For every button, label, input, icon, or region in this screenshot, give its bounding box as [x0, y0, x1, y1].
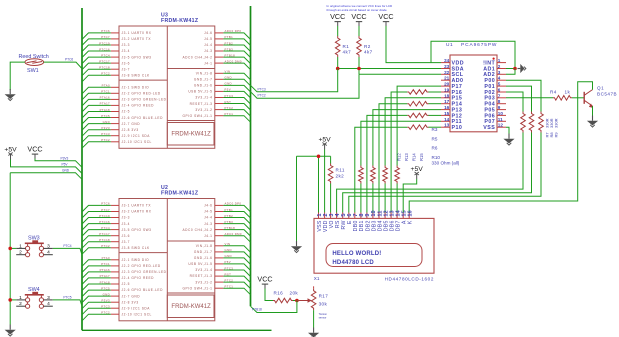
svg-text:11: 11 [377, 211, 383, 217]
wire net PTC5 to bus1 [82, 290, 111, 297]
svg-text:14: 14 [395, 209, 401, 216]
U1 right pin 2 AD1 [483, 64, 506, 72]
svg-text:J4-5: J4-5 [204, 37, 212, 41]
U3 left pin J3-7 [99, 66, 130, 72]
value label HD44780LCD-1602 [385, 277, 434, 282]
junction dot VSS-GND [317, 155, 321, 159]
LCD module X1 outline [314, 218, 434, 273]
wire net RST to bus2 [223, 104, 250, 111]
wire R17 bottom to ground [313, 310, 315, 327]
wire net PTC2 to bus2 [223, 282, 250, 289]
resistor R2 4k7 [357, 36, 373, 57]
svg-text:4: 4 [498, 76, 501, 81]
wire net P3V3 to bus1 [82, 130, 111, 137]
U1 right pin 5 P01 [484, 82, 506, 90]
svg-text:3V3,J1-4: 3V3,J1-4 [195, 268, 212, 272]
svg-text:Torsion: Torsion [319, 312, 328, 316]
wire net PTC5 SW4 to bus1 [53, 300, 82, 306]
svg-text:J2-7 GND: J2-7 GND [122, 294, 141, 298]
svg-text:R10: R10 [432, 155, 441, 160]
resistor R8 330R vertical [529, 112, 534, 133]
wire U1 P13 to LCD column [373, 110, 441, 166]
U2 left pin J2-8 3V3 [102, 299, 139, 305]
wire +5V to LCD pin15 A [403, 179, 417, 213]
svg-text:J3-4: J3-4 [122, 222, 130, 226]
ground under Q1 emitter [587, 116, 598, 128]
svg-text:J3-2 UART0 RX: J3-2 UART0 RX [122, 210, 152, 214]
module U2 inner box FRDM-KW41Z [167, 295, 214, 318]
svg-text:J2-8 3V3: J2-8 3V3 [122, 300, 139, 304]
svg-text:VIN,J1-8: VIN,J1-8 [196, 72, 213, 76]
U2 left pin J3-8 SWD CLK [101, 244, 150, 250]
svg-text:GPIO SW4,J1-1: GPIO SW4,J1-1 [183, 114, 213, 118]
wire net PTC2 to bus1 [82, 142, 111, 148]
U2 left pin J3-4 [99, 220, 130, 226]
net arrow marker right of AD1 [518, 64, 526, 73]
svg-text:VCC: VCC [351, 12, 366, 21]
net label PTB18 [252, 307, 262, 311]
U2 left pin J3-7 [99, 238, 130, 244]
wire net PTA18 to bus1 [82, 284, 111, 291]
resistor R3 330R horizontal on P16 [407, 90, 428, 95]
svg-text:RESET,J1-3: RESET,J1-3 [190, 274, 213, 278]
wire net PTA0 to bus1 [82, 87, 111, 94]
svg-text:2: 2 [19, 250, 22, 256]
svg-text:J2-2 GPIO RED-LED: J2-2 GPIO RED-LED [122, 264, 161, 268]
svg-text:R12: R12 [396, 153, 401, 161]
svg-text:RESET,J1-3: RESET,J1-3 [190, 102, 213, 106]
wire net PTC3 to bus1 [82, 136, 111, 143]
svg-text:GND,J1-7: GND,J1-7 [194, 78, 213, 82]
junction dot AD1 node [513, 67, 517, 71]
U2 right pin J4-1 [204, 232, 242, 238]
wire net VIN to bus2 [223, 246, 250, 253]
wire net PTC2 to bus1 [82, 75, 111, 82]
wire net PTC4 to bus1 [82, 57, 111, 64]
wire net P5V to bus2 [223, 91, 250, 98]
wire rail from GND corner down to SW3 SW4 [9, 173, 11, 325]
svg-text:R17: R17 [319, 294, 329, 299]
resistor R14 330R vertical in column [383, 166, 388, 184]
svg-text:HD44780 LCD: HD44780 LCD [332, 260, 374, 266]
svg-text:VSS: VSS [483, 125, 495, 131]
svg-text:3: 3 [47, 295, 50, 301]
svg-text:GND,J1-6: GND,J1-6 [194, 84, 213, 88]
U3 left pin J3-6 [99, 59, 130, 65]
ground under LCD [291, 241, 302, 253]
wire net P5V to bus2 [223, 264, 250, 271]
wire net GND to bus2 [223, 252, 250, 259]
designator U2 title [161, 185, 199, 197]
wire net PTC4 to bus1 [82, 230, 111, 237]
U3 right pin GPIO SW4,J1-1 [183, 112, 234, 118]
LCD inner display box [326, 244, 422, 267]
svg-text:VCC: VCC [27, 145, 42, 154]
svg-text:J2-3 GPIO GREEN-LED: J2-3 GPIO GREEN-LED [122, 270, 167, 274]
LCD pin 14 DB7 [395, 209, 401, 231]
svg-text:J4-1: J4-1 [204, 234, 212, 238]
U3 left pin J3-8 SWD CLK [101, 72, 150, 78]
svg-text:3V3,J1-4: 3V3,J1-4 [195, 96, 212, 100]
svg-text:SW3: SW3 [28, 236, 40, 242]
U1 left pin 23 SDA [441, 64, 464, 72]
wire net PTC16 to bus1 [82, 224, 111, 231]
svg-text:RS: RS [335, 220, 341, 228]
U2 left pin J3-1 UART0 TX [101, 202, 151, 208]
U3 right pin GND,J1-6 [194, 82, 232, 88]
U1 left pin 13 P10 [441, 123, 462, 131]
svg-text:J2-9 I2C1 SDA: J2-9 I2C1 SDA [122, 306, 151, 310]
svg-text:GND,J1-7: GND,J1-7 [194, 250, 213, 254]
ground under R17 [308, 328, 319, 337]
U2 left pin J2-10 I2C1 SCL [101, 311, 152, 317]
svg-text:USB 5V,J1-5: USB 5V,J1-5 [188, 90, 212, 94]
junction dot at rail SW4 [8, 298, 12, 302]
U3 right pin J4-3 [204, 47, 233, 53]
IC U1 PCA9675PW outline [450, 55, 497, 132]
resistor R7 330R vertical [521, 112, 526, 133]
U3 left pin J2-5 [100, 108, 130, 114]
svg-text:22: 22 [444, 70, 450, 75]
trimmer wiper arrow into R17 [297, 298, 312, 302]
LCD pin 12 DB5 [383, 210, 389, 231]
resistor R6 330R horizontal on P12 [407, 113, 428, 118]
U3 left pin J2-3 GPIO GREEN-LED [100, 96, 167, 102]
svg-text:J2-6 GPIO BLUE-LED: J2-6 GPIO BLUE-LED [122, 116, 164, 120]
wire net PTB18 to bus2 [223, 230, 250, 237]
svg-text:P5V: P5V [62, 162, 69, 166]
wire net PTC6 SW1 to bus1 [44, 62, 82, 69]
svg-text:J2-7 GND: J2-7 GND [122, 122, 141, 126]
svg-text:HD44780LCD-1602: HD44780LCD-1602 [385, 277, 434, 282]
net label PTC2 on SCL wire [258, 94, 266, 98]
U1 left pin 21 AD0 [441, 76, 463, 84]
U2 right pin GND,J1-7 [194, 248, 232, 254]
value label R6 [432, 146, 438, 151]
U1 right pin 9 P05 [484, 105, 506, 113]
note text about VCC lines [327, 4, 394, 12]
LCD pin 7 DB0 [353, 213, 359, 232]
wire R9 down to LCD [349, 133, 541, 213]
svg-text:J3-5 GPIO SW3: J3-5 GPIO SW3 [122, 228, 152, 232]
svg-text:7: 7 [353, 213, 359, 216]
svg-text:E: E [347, 220, 353, 224]
supply VCC symbol 1 [330, 12, 345, 26]
wire net GND to bus1 [82, 296, 111, 303]
ground under SW3/SW4 rail [5, 325, 16, 337]
transistor Q1 BC547B [584, 86, 617, 108]
wire R11 bottom to LCD pin3 VO [330, 184, 332, 213]
svg-text:5: 5 [341, 213, 347, 216]
svg-text:J2-3 GPIO GREEN-LED: J2-3 GPIO GREEN-LED [122, 98, 167, 102]
U3 left pin J2-9 I2C1 SDA [101, 132, 150, 138]
tactile switch SW4 [16, 287, 53, 308]
LCD pin 3 VO [329, 213, 335, 229]
U2 right pin GPIO SW4,J1-1 [183, 285, 234, 291]
svg-text:FRDM-KW41Z: FRDM-KW41Z [171, 132, 211, 138]
svg-text:R16: R16 [274, 291, 284, 296]
U1 left pin 15 P12 [441, 111, 462, 119]
U1 left pin 18 P15 [441, 93, 462, 101]
U3 left pin J2-7 GND [103, 120, 141, 126]
svg-text:FRDM-KW41Z: FRDM-KW41Z [161, 18, 199, 24]
ground under U1 VSS [503, 134, 514, 146]
wire net VDD: VCC3 down and to U1 pin 24 [386, 26, 441, 63]
svg-text:2k2: 2k2 [336, 174, 345, 179]
svg-text:U1: U1 [446, 42, 453, 48]
net label PTC5 [63, 295, 71, 299]
svg-text:10: 10 [498, 111, 504, 116]
U1 left pin 17 P14 [441, 99, 462, 107]
svg-text:11: 11 [498, 117, 503, 122]
wire resistor to LCD column [391, 92, 407, 213]
svg-text:R13: R13 [404, 153, 409, 161]
designator labels R12 R13 R14 R15 [396, 153, 424, 161]
svg-text:J4-6: J4-6 [204, 204, 212, 208]
svg-text:J3-3: J3-3 [122, 216, 130, 220]
wire net PTC2 to bus1 [82, 314, 111, 321]
svg-text:18: 18 [444, 93, 450, 98]
U3 left pin J3-2 UART0 TX [101, 35, 151, 41]
U3 right pin J4-4 [204, 41, 233, 47]
svg-text:24: 24 [444, 58, 450, 63]
value label R5 [432, 136, 438, 141]
net label P5V [62, 162, 69, 166]
bus wire vertical left (bus1) [81, 8, 83, 330]
wire net PTB18 to bus2 [223, 57, 250, 64]
wire U1 P16 to resistor [429, 91, 442, 93]
module U2 FRDM-KW41Z outline [119, 199, 215, 321]
svg-text:J4-4: J4-4 [204, 43, 212, 47]
U2 left pin J2-7 GND [103, 292, 141, 298]
svg-text:J2-1 SWD DIO: J2-1 SWD DIO [122, 258, 150, 262]
wire net PTC3 to bus2 [223, 98, 250, 105]
U3 left pin J2-10 I2C1 SCL [101, 138, 152, 144]
LCD pin 6 E [347, 213, 353, 225]
net label P3V3 [61, 156, 69, 160]
svg-text:12: 12 [498, 123, 504, 128]
supply +5V symbol left [4, 147, 17, 160]
wire U1 P00 right and down [506, 80, 541, 111]
svg-text:J3-7: J3-7 [122, 67, 130, 71]
svg-text:J3-2 UART0 TX: J3-2 UART0 TX [122, 37, 152, 41]
wire U1 P11 to LCD column [361, 121, 441, 165]
wire Q1 collector up-left-down to LCD K (backlight) [409, 82, 592, 213]
svg-text:1: 1 [19, 243, 22, 249]
wire net PTC16 to bus1 [82, 51, 111, 58]
svg-text:2: 2 [498, 64, 501, 69]
svg-text:3V3,J1-2: 3V3,J1-2 [195, 108, 212, 112]
svg-text:VIN,J1-8: VIN,J1-8 [196, 244, 213, 248]
wire net PTA17 to bus1 [82, 105, 111, 112]
U3 right pin USB 5V,J1-5 [188, 88, 231, 94]
svg-text:2: 2 [19, 301, 22, 307]
net label PTC3 on SDA wire [258, 87, 266, 91]
svg-text:R5: R5 [432, 136, 438, 141]
U1 right pin 11 P07 [484, 117, 506, 125]
designator U1 title [446, 42, 497, 48]
wire net PTC1 to bus2 [223, 116, 250, 123]
wire net ADC0 DM0 to bus2 [223, 63, 250, 70]
LCD display text [332, 251, 381, 266]
svg-text:7: 7 [498, 93, 501, 98]
U2 left pin J3-6 [99, 232, 130, 238]
svg-text:J3-8 SWD CLK: J3-8 SWD CLK [122, 74, 151, 78]
wire net PTC19 to bus1 [82, 218, 111, 225]
svg-text:K: K [408, 220, 414, 224]
U2 left pin J3-5 GPIO SW3 [101, 226, 151, 232]
U3 left pin J3-1 UART0 RX [101, 29, 152, 35]
resistor R4 1k [550, 90, 572, 101]
U3 right pin 3V3,J1-4 [195, 94, 233, 100]
U2 left pin J2-5 [100, 280, 130, 286]
wire net SCL: R2 down [358, 57, 360, 74]
U3 left pin J2-4 GPIO REED [100, 102, 154, 108]
wire resistor down to LCD pin [384, 184, 386, 213]
svg-text:R2: R2 [364, 44, 371, 49]
resistor R16 20k [273, 291, 298, 303]
wire net PTC5 to bus1 [82, 118, 111, 125]
LCD pin 16 K [408, 210, 414, 224]
wire net VIN to bus2 [223, 73, 250, 80]
U1 right pin 10 P06 [484, 111, 506, 119]
wire net PTB18 from bus2 to wiper [251, 301, 297, 313]
svg-text:J3-3: J3-3 [122, 43, 130, 47]
svg-text:J4-6: J4-6 [204, 31, 212, 35]
svg-text:R15: R15 [419, 153, 424, 161]
svg-text:ADC0 CH4,J4-2: ADC0 CH4,J4-2 [182, 55, 212, 59]
svg-text:HELLO WORLD!: HELLO WORLD! [332, 251, 381, 257]
svg-text:VCC: VCC [257, 275, 272, 284]
wire net PTC6 to bus1 [82, 205, 111, 212]
wire VCC2 to R2 [358, 26, 360, 36]
wire net PTB3 to bus2 [223, 224, 250, 231]
svg-text:13: 13 [444, 123, 450, 128]
U1 right pin 7 P03 [484, 93, 506, 101]
ground under SW1 [5, 89, 16, 101]
wire +5V to LCD pin2 VDD [324, 150, 326, 213]
svg-text:J2-10 I2C1 SCL: J2-10 I2C1 SCL [122, 140, 152, 144]
junction dot at rail SW3 [8, 247, 12, 251]
wire net GND of LCD (VSS, R11 top) [297, 155, 331, 157]
value note Torsion sensor [319, 312, 328, 319]
svg-text:R11: R11 [336, 168, 345, 173]
supply VCC symbol left [27, 145, 42, 159]
U3 right pin J4-5 [204, 35, 233, 41]
svg-text:J2-5: J2-5 [122, 282, 130, 286]
wire net PTC3 to bus1 [82, 308, 111, 315]
value labels R7 R8 R9 330R [545, 118, 559, 137]
supply +5V symbol at LCD VDD [318, 137, 331, 150]
LCD pin 5 RW [341, 213, 347, 230]
svg-text:J4-5: J4-5 [204, 210, 212, 214]
U2 left pin J2-6 GPIO BLUE-LED [101, 286, 163, 292]
resistor R12 330R vertical in column [359, 166, 364, 184]
wire AD1 stub to junction [506, 68, 515, 70]
svg-text:J3-5 GPIO SW3: J3-5 GPIO SW3 [122, 55, 152, 59]
svg-text:17: 17 [444, 99, 450, 104]
U3 left pin J3-3 [99, 41, 130, 47]
svg-text:23: 23 [444, 64, 450, 69]
svg-text:J2-8 3V3: J2-8 3V3 [122, 128, 139, 132]
wire net PTA16 to bus1 [82, 99, 111, 106]
U2 right pin J4-6 [204, 202, 241, 208]
svg-text:PTB18: PTB18 [252, 307, 262, 311]
designator X1 [314, 276, 320, 281]
wire LCD pin1 VSS up to GND line [318, 156, 320, 212]
svg-text:P10: P10 [452, 125, 463, 131]
resistor R5 330R horizontal on P14 [407, 101, 428, 106]
U1 left pin 24 VDD [441, 58, 464, 66]
wire U1 P14 to resistor [429, 103, 442, 105]
resistor R10 330R horizontal on P10 [407, 125, 428, 130]
wire net PTC7 to bus1 [82, 39, 111, 46]
wire U1 P01 right and down [506, 86, 532, 111]
svg-text:GND: GND [62, 168, 70, 172]
wire net P3V3 from VCC to bus1 [35, 159, 82, 168]
svg-text:R4: R4 [550, 90, 557, 95]
svg-text:J4-3: J4-3 [204, 49, 212, 53]
value label R10 [432, 155, 441, 160]
wire net PTA18 to bus1 [82, 112, 111, 119]
svg-text:BC547B: BC547B [597, 92, 617, 97]
svg-text:J2-4 GPIO REED: J2-4 GPIO REED [122, 104, 155, 108]
U1 right pin 3 AD2 [483, 70, 506, 78]
wire net PTB1 to bus2 [223, 212, 250, 219]
U1 left pin 20 P17 [441, 82, 462, 90]
wire rail to SW4 [10, 299, 16, 301]
U2 left pin J2-2 GPIO RED-LED [101, 262, 161, 268]
U3 right pin J4-6 [204, 29, 241, 35]
svg-text:PTC6: PTC6 [65, 58, 73, 62]
svg-text:VCC: VCC [378, 12, 393, 21]
net label PTC6 [65, 58, 73, 62]
wire resistor down to LCD pin [372, 184, 374, 213]
svg-text:PTC2: PTC2 [258, 94, 266, 98]
svg-text:FRDM-KW41Z: FRDM-KW41Z [161, 191, 199, 197]
wire resistor down to LCD pin [396, 184, 398, 213]
wire GND line corner to R11 top [330, 156, 332, 163]
wire net PTC1 to bus2 [223, 288, 250, 295]
svg-text:X1: X1 [314, 276, 320, 281]
U2 right pin USB 5V,J1-5 [188, 260, 231, 266]
svg-text:1k: 1k [565, 90, 571, 95]
wire net VDD loop over U1 to AD1/AD2 [431, 41, 515, 68]
value label R3 [432, 127, 438, 132]
svg-text:+5V: +5V [318, 137, 331, 144]
svg-text:PTC3: PTC3 [258, 87, 266, 91]
svg-text:4k7: 4k7 [343, 50, 352, 55]
value label 330 Ohm (all) [432, 160, 460, 165]
svg-text:J4-4: J4-4 [204, 216, 212, 220]
resistor R9 330R vertical [539, 112, 544, 133]
wire net ADC0 DP0 to bus2 [223, 33, 250, 40]
svg-text:P3V3: P3V3 [61, 156, 69, 160]
svg-text:USB 5V,J1-5: USB 5V,J1-5 [188, 262, 212, 266]
U1 right pin 8 P04 [484, 99, 506, 107]
svg-text:4k7: 4k7 [364, 50, 373, 55]
U1 right pin 1 !INT [483, 58, 506, 66]
svg-text:J2-4 GPIO REED: J2-4 GPIO REED [122, 276, 155, 280]
bus wire vertical right (bus2) [250, 6, 252, 306]
wire LCD GND down to ground arrow [296, 156, 298, 241]
svg-text:5: 5 [498, 82, 501, 87]
svg-text:VDD: VDD [323, 220, 329, 232]
svg-text:+5V: +5V [411, 166, 424, 173]
svg-text:330 Ohm (all): 330 Ohm (all) [432, 160, 460, 165]
svg-text:DB5: DB5 [383, 220, 389, 231]
net label GND [62, 168, 70, 172]
